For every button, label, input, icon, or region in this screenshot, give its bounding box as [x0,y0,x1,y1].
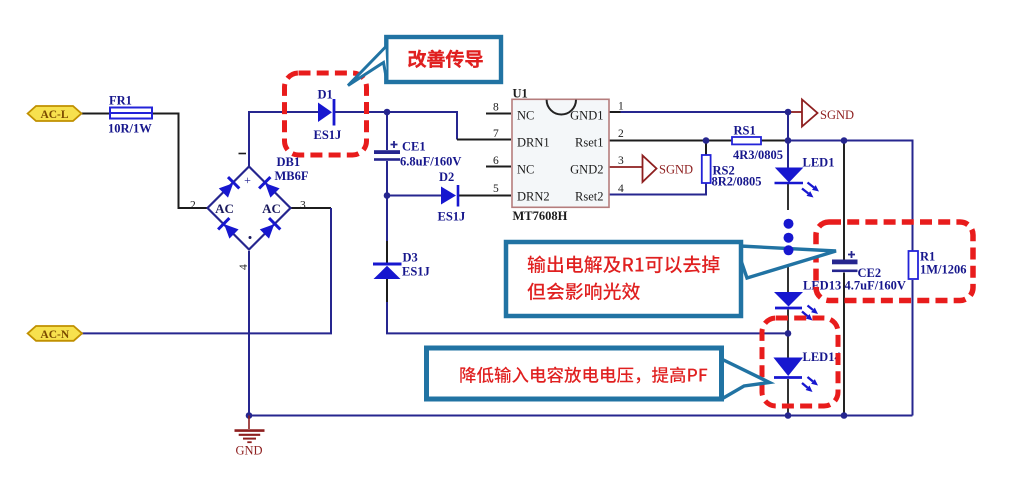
svg-text:SGND: SGND [659,163,693,177]
svg-text:1M/1206: 1M/1206 [920,263,967,277]
wire bridge pin 3 stub [291,207,331,209]
svg-text:NC: NC [517,163,534,177]
junction node SGND rail [785,109,792,116]
svg-text:GND: GND [236,444,263,458]
wire D3 cathode to LED string node [386,279,388,302]
svg-text:FR1: FR1 [109,94,132,108]
svg-text:D2: D2 [439,170,454,184]
svg-text:Rset2: Rset2 [575,190,603,204]
diode D3 ES1J [373,251,430,280]
junction node D3 to LED string [785,330,792,337]
wire D3 anode stub [386,241,388,263]
wire node to D2 anode and U1 pin 5 [387,195,441,197]
wire bridge pin 3 to AC-N [82,208,331,333]
svg-text:AC-L: AC-L [40,109,68,121]
resistor RS1 4R3/0805 [732,124,783,163]
junction node CE2 top [841,137,848,144]
wire RS1 to R1 top rail [788,141,913,252]
wire U1 pin 3 to SGND arrow [609,166,643,168]
svg-text:NC: NC [517,109,534,123]
svg-text:5: 5 [493,183,499,195]
svg-text:ES1J: ES1J [438,210,466,224]
annotation callout 3 box [427,348,770,399]
svg-text:GND1: GND1 [570,109,603,123]
svg-text:4: 4 [238,264,250,270]
wire R1 bottom to ground rail [912,280,914,416]
svg-text:6.8uF/160V: 6.8uF/160V [400,155,461,169]
port AC-N [28,326,82,341]
wire CE1 to node at D2 [386,161,388,196]
svg-text:DRN2: DRN2 [517,190,550,204]
bridge rectifier DB1 MB6F [190,154,309,271]
wire CE2 bottom to ground rail [843,273,845,416]
svg-text:4: 4 [618,183,624,195]
svg-text:LED13: LED13 [803,279,841,293]
highlight box around CE2 and R1 [816,222,973,301]
svg-text:CE1: CE1 [402,140,426,154]
ground GND [235,416,265,458]
wire FR1 to bridge pin 2 [152,114,208,209]
svg-text:DRN1: DRN1 [517,136,550,150]
power port SGND top right [802,100,854,127]
wire RS1 right to LED node [761,140,788,142]
wire D3 to LED string node [387,302,788,333]
svg-text:MB6F: MB6F [275,169,309,183]
svg-text:SGND: SGND [820,108,854,122]
wire U1 pin 6 stub NC [486,166,511,168]
diode D1 ES1J [314,88,342,143]
resistor R1 1M/1206 [909,250,967,280]
LED1 [775,156,835,198]
wire bottom ground rail [249,415,913,417]
svg-text:7: 7 [493,128,499,140]
resistor RS2 8R2/0805 [702,155,762,189]
wire node down to CE1 [386,112,388,150]
svg-text:D3: D3 [403,251,418,265]
svg-text:AC: AC [262,201,281,216]
op-amp U1 MT7608H [493,87,624,224]
highlight box around LED14 [762,318,838,406]
svg-text:8: 8 [493,102,499,114]
capacitor CE2 4.7uF/160V [832,251,906,293]
wire CE2 top to rail [843,141,845,260]
svg-text:4.7uF/160V: 4.7uF/160V [845,279,906,293]
wire U1 pin 2 stub [609,140,621,142]
wire LED13 cathode to node [787,310,789,358]
wire LED14 cathode to ground rail [787,379,789,416]
wire U1 pin 1 to SGND [621,111,789,113]
wire RS2 top [705,141,707,156]
junction node LED1 top [785,137,792,144]
svg-text:4R3/0805: 4R3/0805 [733,148,783,162]
svg-text:RS1: RS1 [734,124,756,138]
wire ellipsis to LED13 [787,258,789,292]
power port SGND at pin 3 [643,156,694,183]
wire D1 cathode to node [334,111,387,113]
junction node RS2 top [703,137,710,144]
highlight box around D1 [285,73,367,155]
junction node CE1 bottom [384,192,391,199]
svg-text:3: 3 [618,155,624,167]
wire node to U1 pin 7 [387,112,457,140]
wire LED1 cathode down [787,184,789,210]
svg-text:D1: D1 [318,88,333,102]
wire D2 cathode to U1 pin 5 [459,195,512,197]
wire SGND node down to LED1 [787,112,789,168]
wire U1 pin 8 stub NC [486,113,511,115]
junction node LED14 bottom [785,412,792,419]
annotation callout 2 box [506,242,836,316]
annotation callout 1 box [348,37,501,86]
svg-text:2: 2 [190,200,196,212]
ellipsis dots for LED string [784,219,794,229]
fuse resistor FR1 [108,94,152,136]
svg-text:8R2/0805: 8R2/0805 [712,175,762,189]
svg-text:LED1: LED1 [803,156,835,170]
port AC-L [28,106,82,121]
svg-text:U1: U1 [513,87,528,101]
svg-text:Rset1: Rset1 [575,136,603,150]
svg-text:+: + [244,173,251,187]
svg-text:R1: R1 [920,250,935,264]
svg-text:AC-N: AC-N [40,329,69,341]
wire node down to D3 [386,196,388,242]
wire corner to U1 pin 7 [457,139,511,141]
svg-text:1: 1 [618,101,624,113]
wire U1 pin 1 stub [609,111,621,113]
LED13 [774,279,841,321]
svg-text:10R/1W: 10R/1W [108,122,152,136]
svg-text:AC: AC [215,201,234,216]
capacitor CE1 6.8uF/160V [374,140,461,169]
svg-text:ES1J: ES1J [402,265,430,279]
svg-text:ES1J: ES1J [314,128,342,142]
junction node CE2 bottom [841,412,848,419]
svg-text:6: 6 [493,155,499,167]
junction node D1 output [384,109,391,116]
wire AC-L to FR1 [81,113,110,115]
wire RS2 bottom to U1 pin 4 [609,183,706,195]
LED14 [773,350,841,392]
svg-text:3: 3 [300,200,306,212]
wire U1 pin 2 to RS1 [621,140,733,142]
svg-text:2: 2 [618,128,624,140]
diode D2 ES1J [438,170,466,224]
svg-text:GND2: GND2 [570,163,603,177]
wire bridge top to D1 anode [249,112,319,167]
junction node GND [246,412,253,419]
svg-text:MT7608H: MT7608H [513,209,568,223]
wire bridge pin 4 to ground rail [248,251,250,416]
